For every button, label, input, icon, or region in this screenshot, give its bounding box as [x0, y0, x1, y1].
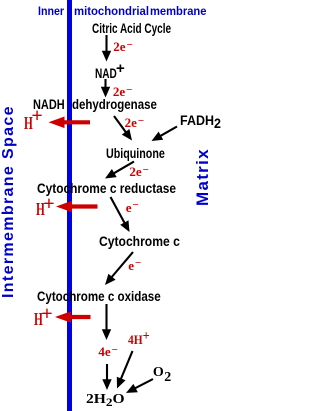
electron label 2e- (1): [113, 40, 133, 55]
proton pump arrow at cytochrome c oxidase: [55, 311, 91, 323]
title word: Inner: [38, 5, 64, 17]
arrow: FADH2 to Ubiquinone: [152, 127, 178, 142]
title word: mitochondrial: [74, 5, 149, 17]
proton label H+ (1) plus sign: [31, 106, 42, 126]
proton pump arrow at NADH dehydrogenase: [49, 117, 91, 129]
label: O2: [153, 366, 171, 380]
label: Ubiquinone: [106, 146, 165, 160]
proton label 4H+: [128, 333, 150, 347]
label: Cytochrome c reductase: [37, 181, 176, 195]
electron label 2e- (4): [129, 165, 149, 180]
arrow: 4e- down to 2H2O: [102, 364, 111, 390]
arrow: O2 to 2H2O: [126, 379, 153, 393]
label word: NADH: [33, 97, 65, 111]
electron label 4e-: [98, 345, 118, 360]
rotated label: Matrix: [194, 148, 211, 206]
proton label H+ (1): [24, 114, 33, 132]
label: Cytochrome c: [99, 234, 180, 248]
electron label 2e- (3): [125, 116, 145, 131]
proton label H+ (2) plus sign: [43, 194, 54, 214]
arrow: NADH dehydrogenase to Ubiquinone: [114, 116, 132, 141]
label: Cytochrome c oxidase: [37, 289, 161, 303]
arrow: Citric Acid Cycle to NAD+: [102, 35, 111, 62]
label: Citric Acid Cycle: [92, 21, 171, 35]
label: FADH2: [180, 113, 221, 127]
title word: membrane: [150, 5, 206, 17]
arrow: Cytochrome c to oxidase: [105, 252, 133, 285]
electron label e- (2): [128, 259, 141, 274]
label: NAD: [95, 66, 117, 80]
electron label 2e- (2): [113, 85, 133, 100]
rotated label: Intermembrane Space: [1, 105, 17, 298]
arrow: Ubiquinone to Cytochrome c reductase: [105, 162, 134, 179]
label: NAD plus sign: [116, 61, 125, 76]
proton label H+ (2): [36, 200, 45, 218]
proton pump arrow at cytochrome c reductase: [56, 201, 98, 213]
arrow: reductase to Cytochrome c: [111, 197, 130, 232]
electron label e- (1): [126, 201, 139, 216]
proton label H+ (3): [34, 310, 43, 328]
arrow: 4H+ to 2H2O: [117, 351, 133, 389]
arrow: oxidase down to 4e-: [102, 304, 111, 340]
arrow: NAD+ to NADH dehydrogenase: [101, 79, 110, 98]
label word: dehydrogenase: [72, 97, 157, 111]
membrane bar (inner mitochondrial membrane): [67, 0, 72, 411]
proton label H+ (3) plus sign: [41, 304, 52, 324]
label: 2H2O: [86, 392, 125, 407]
